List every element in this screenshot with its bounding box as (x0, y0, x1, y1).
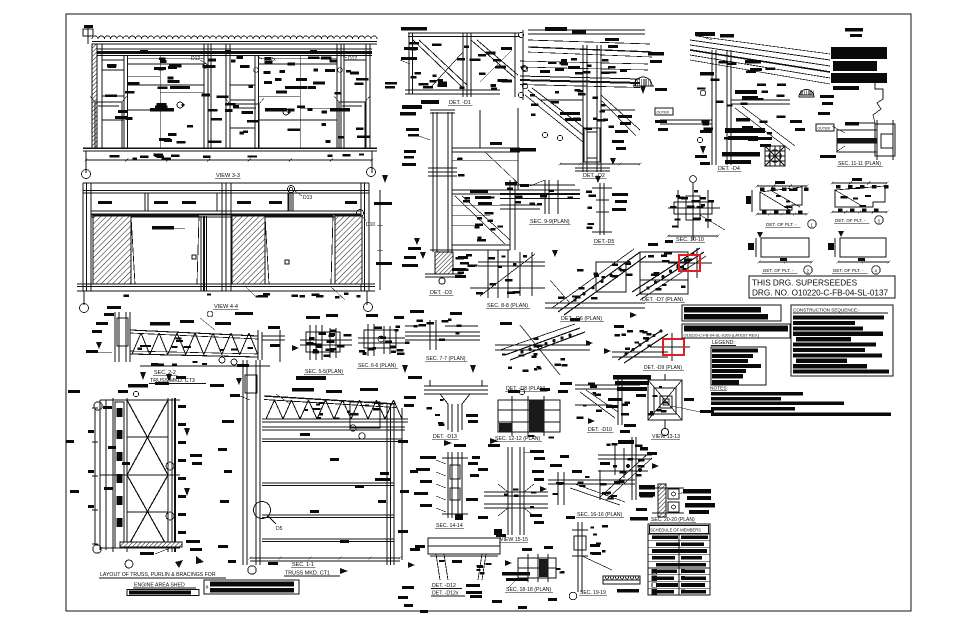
svg-text:SEC. 20-20 (PLAN): SEC. 20-20 (PLAN) (651, 517, 695, 523)
view 4-4 frame (83, 183, 369, 291)
section 16-16 upper connection (598, 437, 659, 500)
plate detail 4 caption (832, 266, 880, 274)
view 4-4 girt band (91, 193, 361, 217)
view 3-3 label D12 right (338, 55, 358, 72)
detail D1 leader bars left (400, 27, 427, 64)
detail D3 caption (429, 290, 454, 296)
svg-text:LAYOUT OF TRUSS, PURLIN & BRAC: LAYOUT OF TRUSS, PURLIN & BRACINGS FOR (100, 572, 216, 578)
section 16-16 caption (576, 512, 624, 518)
detail D9 caption (643, 365, 684, 371)
svg-text:DET. OF PLT. -: DET. OF PLT. - (766, 222, 797, 227)
revision reference box lower (682, 324, 790, 338)
outer label centre (655, 108, 673, 115)
detail D2 diagonals (525, 88, 640, 142)
section 11-11 plan beam (758, 120, 895, 160)
layout grid frame (100, 398, 180, 552)
plate detail 3 caption (834, 216, 883, 224)
detail D2 lower annotations (510, 120, 706, 166)
section 2-2 caption (149, 370, 206, 384)
svg-text:DET. -D9 (PLAN): DET. -D9 (PLAN) (644, 365, 682, 371)
section 2-2 column (86, 306, 130, 362)
detail D8 plan (495, 318, 593, 375)
svg-text:DET. -D3: DET. -D3 (430, 290, 452, 296)
view 3-3 grid bubble A (82, 160, 91, 179)
detail D1 bolts and circles (409, 32, 527, 97)
section 16-16 plan (540, 462, 635, 505)
detail D5 column section (586, 176, 628, 235)
section 1-1 right column (350, 404, 409, 565)
view 3-3 left column with hatch (83, 25, 102, 148)
section 1-1 purlin lines (262, 427, 405, 543)
plate detail 3 (831, 178, 889, 214)
view 4-4 grid bubble right (364, 303, 373, 312)
section 12-12 caption (494, 436, 542, 442)
between details annotation bars (605, 38, 667, 133)
revision reference box upper (682, 305, 781, 321)
view 3-3 interior beams and panels (102, 55, 337, 148)
svg-text:DET. -D2: DET. -D2 (583, 173, 605, 179)
supersedes note box (749, 276, 895, 298)
layout X bracings (127, 400, 168, 548)
section 7-7 caption (425, 356, 468, 362)
layout left margin marks (66, 390, 130, 493)
detail D2 top roof lines (523, 27, 652, 100)
view 4-4 door panels (131, 216, 333, 284)
svg-text:D12: D12 (348, 56, 357, 62)
svg-text:D13: D13 (303, 195, 312, 201)
view 13-13 left annotation bars (606, 375, 651, 433)
svg-text:LEGEND:: LEGEND: (712, 340, 735, 346)
section 6-6 plan connection (358, 314, 405, 356)
plate detail 4 (828, 231, 891, 264)
svg-text:D5: D5 (276, 526, 283, 532)
view 3-3 grid bubble B (367, 168, 376, 177)
view 3-3 columns (124, 44, 370, 148)
svg-text:VIEW 15-15: VIEW 15-15 (500, 537, 528, 543)
roof corner profile right (799, 47, 887, 123)
plate detail 2 caption (762, 266, 812, 274)
svg-text:SEC. 19-19: SEC. 19-19 (580, 590, 606, 596)
layout caption line 2 (133, 583, 196, 589)
detail D2 mid beam (520, 58, 648, 89)
view 4-4 dark jamb strip (201, 216, 207, 291)
svg-text:DET. -D1: DET. -D1 (449, 100, 471, 106)
detail D6 caption (560, 316, 604, 322)
detail D2 arch haunch (633, 77, 654, 86)
view 4-4 title (213, 304, 238, 310)
svg-text:OUTER: OUTER (818, 127, 831, 131)
detail D7 caption (641, 297, 685, 303)
detail D4 extra annotation bars (695, 60, 805, 165)
layout hatched chord strip (115, 402, 124, 548)
layout caption line 1 (99, 572, 226, 578)
detail D7 plan gusset (632, 240, 706, 300)
detail D2 column (575, 45, 610, 172)
svg-text:VIEW 4-4: VIEW 4-4 (214, 304, 238, 310)
view 3-3 title (215, 173, 240, 179)
view 15-15 caption (499, 537, 528, 543)
section 7-7 plan (405, 310, 480, 350)
detail D1 caption (448, 100, 473, 106)
detail D4 column and members (660, 50, 795, 165)
svg-text:DET.-D5: DET.-D5 (594, 239, 614, 245)
view 3-3 base and dimension line (83, 148, 377, 173)
svg-text:DET. -D6 (PLAN): DET. -D6 (PLAN) (561, 316, 602, 322)
construction sequence box (791, 305, 893, 376)
plate detail 1 (746, 181, 809, 216)
view 3-3 interior wall lines (102, 58, 366, 108)
layout subtitle bars (127, 580, 299, 596)
svg-text:SEC. 8-8 (PLAN): SEC. 8-8 (PLAN) (487, 303, 528, 309)
outer label right (816, 124, 834, 131)
svg-text:DET. -D12x: DET. -D12x (432, 591, 459, 597)
central column detail top (400, 100, 465, 180)
svg-text:#: # (206, 585, 209, 591)
section 18-18 plan (508, 546, 565, 588)
view 4-4 hatched wall panel 2 (232, 216, 265, 284)
svg-text:DET. OF PLT. -: DET. OF PLT. - (763, 268, 794, 273)
section 14-14 column (414, 440, 480, 520)
section 20-20 plan (630, 484, 715, 520)
svg-text:SEC. 18-18 (PLAN): SEC. 18-18 (PLAN) (506, 587, 552, 593)
section 2-2 truss CT3 (130, 312, 262, 360)
detail D8 caption (505, 386, 548, 392)
view 3-3 eave beam (97, 49, 372, 56)
section 10-10 plan (667, 176, 726, 240)
layout base strip (120, 542, 182, 568)
svg-text:SEC. 16-16 (PLAN): SEC. 16-16 (PLAN) (577, 512, 623, 518)
svg-text:SEC. 14-14: SEC. 14-14 (436, 523, 463, 529)
section 1-1 top chord truss (262, 388, 408, 428)
notes block (710, 386, 891, 417)
svg-text:DET. -D7 (PLAN): DET. -D7 (PLAN) (642, 297, 683, 303)
detail D4 roof slope lines (690, 28, 863, 84)
section 5-5 plan connection (292, 314, 352, 360)
plate detail 2 (748, 232, 814, 264)
detail D10 caption (587, 427, 613, 433)
svg-text:SEC. 1-1: SEC. 1-1 (292, 562, 314, 568)
layout left dimension column (88, 402, 102, 553)
svg-text:DET. -D4: DET. -D4 (718, 166, 740, 172)
section 18-18 caption (505, 587, 553, 593)
svg-text:SEC. 7-7 (PLAN): SEC. 7-7 (PLAN) (426, 356, 466, 362)
svg-text:VIEW 3-3: VIEW 3-3 (216, 173, 240, 179)
view 4-4 hatched wall panel 1 (93, 216, 131, 284)
central column to wall strut (452, 108, 520, 190)
svg-text:DRG. NO. O10220-C-FB-04-SL-013: DRG. NO. O10220-C-FB-04-SL-0137 (752, 289, 888, 298)
view 4-4 base and dims (77, 284, 375, 305)
layout right purlin marks (166, 405, 204, 568)
section 10-10 side bars (722, 128, 765, 164)
detail D10 (558, 375, 640, 425)
section 5-5 caption (304, 369, 344, 375)
view 4-4 vent D10 (357, 210, 376, 229)
svg-text:SEC. 12-12 (PLAN): SEC. 12-12 (PLAN) (495, 436, 541, 442)
legend box (711, 340, 766, 385)
plate detail 1 caption (765, 220, 816, 228)
section 1-1 left scatter marks (210, 376, 326, 563)
view 13-13 caption (651, 434, 680, 440)
section 20-20 caption (650, 517, 696, 523)
section 10-10 caption (675, 237, 705, 243)
section 9-9 caption (529, 219, 570, 225)
detail D12 caption (431, 583, 482, 597)
view 15-15 cruciform (478, 438, 548, 535)
svg-text:SEC. 2-2: SEC. 2-2 (154, 370, 176, 376)
detail D3 base hatched block (402, 238, 478, 284)
view 4-4 vent D13 (288, 186, 313, 212)
section 1-1 member mark circle D5 (254, 502, 283, 533)
layout dark right chord (172, 398, 175, 552)
svg-text:SEC. 11-11 (PLAN): SEC. 11-11 (PLAN) (838, 161, 881, 167)
svg-text:DET. -D12: DET. -D12 (432, 583, 456, 589)
svg-text:D10: D10 (366, 222, 375, 228)
svg-text:SEC. 9-9(PLAN): SEC. 9-9(PLAN) (530, 219, 570, 225)
section 8-8 plan (452, 250, 545, 298)
svg-text:TRUSS MKD. CT1: TRUSS MKD. CT1 (285, 571, 330, 577)
view 3-3 annotation marks (105, 56, 370, 144)
svg-text:SEC. 6-6 (PLAN): SEC. 6-6 (PLAN) (358, 363, 396, 369)
section 1-1 caption (284, 562, 340, 577)
detail D4 caption (717, 166, 742, 172)
red revision box 1 (668, 248, 712, 278)
svg-text:DET. OF PLT. -: DET. OF PLT. - (833, 268, 864, 273)
misc left margin bars bottom (378, 455, 582, 613)
svg-text:SEC. 10-10: SEC. 10-10 (676, 237, 704, 243)
red revision box 2 (650, 333, 690, 361)
view 3-3 label D12 left (191, 56, 207, 68)
view 4-4 right dimension strip (374, 82, 397, 290)
central column detail lower (433, 180, 515, 252)
detail D5 caption (593, 239, 615, 245)
section 11-11 caption (837, 161, 883, 167)
view 4-4 grid bubble left (80, 304, 89, 313)
view 4-4 hatched wall panel 3 (335, 216, 362, 284)
view 3-3 roof scalloped sheeting (92, 36, 377, 44)
detail D2 caption (582, 173, 607, 179)
svg-text:D12: D12 (191, 56, 200, 62)
section 6-6 caption (357, 363, 398, 369)
detail D9 plan (604, 325, 668, 363)
detail D13 caption (432, 434, 458, 440)
svg-text:ENGINE AREA SHED: ENGINE AREA SHED (134, 583, 185, 589)
section 14-14 caption (435, 523, 464, 529)
svg-text:DET. -D10: DET. -D10 (588, 427, 612, 433)
section 19-19 post and deck (566, 516, 640, 600)
view 3-3 door openings (90, 96, 370, 148)
section 19-19 caption (579, 590, 607, 596)
section 9-9 plan (500, 180, 580, 214)
detail D6 plan gusset (545, 249, 646, 318)
section 12-12 plan grid (498, 388, 560, 439)
svg-text:O10220-C-FB-04-SL-0109 (LATEST: O10220-C-FB-04-SL-0109 (LATEST REV.) (684, 333, 760, 338)
section 2-2 truss right end (140, 311, 285, 366)
section 1-1 left column (230, 360, 260, 565)
section 8-8 caption (486, 303, 530, 309)
detail D1 frame (405, 33, 520, 97)
svg-text:CONSTRUCTION SEQUENCE:-: CONSTRUCTION SEQUENCE:- (793, 308, 860, 313)
svg-text:OUTER: OUTER (657, 111, 670, 115)
svg-text:DET. OF PLT. -: DET. OF PLT. - (835, 218, 866, 223)
section 1-1 base (248, 557, 402, 575)
schedule of members table (648, 524, 710, 595)
svg-text:SCHEDULE OF MEMBERS: SCHEDULE OF MEMBERS (650, 528, 701, 533)
detail D13 tee (402, 365, 488, 432)
view 3-3 label D12x (254, 55, 277, 72)
detail D4 fan grille (765, 146, 785, 166)
detail D1 diagonals (413, 40, 518, 88)
detail D12 beam (408, 534, 530, 581)
svg-text:THIS DRG. SUPERSEEDES: THIS DRG. SUPERSEEDES (752, 279, 858, 288)
svg-text:SEC. 5-5(PLAN): SEC. 5-5(PLAN) (305, 369, 343, 375)
svg-text:DET. -D13: DET. -D13 (433, 434, 457, 440)
view 13-13 (636, 374, 714, 436)
svg-text:VIEW 13-13: VIEW 13-13 (652, 434, 680, 440)
layout top annotations (118, 372, 186, 397)
